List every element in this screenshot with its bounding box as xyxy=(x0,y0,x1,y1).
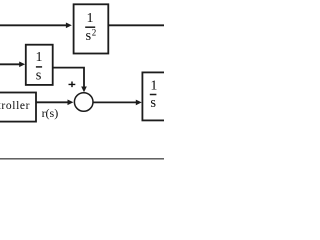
plus sign for top input xyxy=(69,82,76,88)
svg-text:2: 2 xyxy=(92,27,97,37)
svg-text:troller: troller xyxy=(0,100,30,112)
wire W5: controller output into summing junction xyxy=(36,101,68,103)
svg-text:1: 1 xyxy=(36,50,43,65)
arrowhead into summing junction left xyxy=(68,100,74,106)
arrowhead into 1/s^2 xyxy=(66,23,72,29)
fraction bar xyxy=(85,26,95,28)
fraction bar xyxy=(150,94,157,96)
svg-text:1: 1 xyxy=(87,11,94,26)
arrowhead into right 1/s block xyxy=(136,100,142,106)
arrowhead down into summing junction xyxy=(81,87,87,93)
svg-text:s: s xyxy=(150,95,156,111)
block U2: 1/s (left) xyxy=(26,45,53,85)
summing junction xyxy=(74,93,93,112)
wire W4: 1/s output right then down into summing junction xyxy=(53,67,84,88)
svg-text:1: 1 xyxy=(150,79,157,94)
svg-text:r(s): r(s) xyxy=(42,106,59,120)
bottom horizontal rule xyxy=(0,158,164,160)
block U3: Controller (cut off at left edge) xyxy=(0,93,36,122)
arrowhead into 1/s xyxy=(19,62,25,68)
wire W1: input line into 1/s^2 block xyxy=(0,24,66,26)
wire W3: input line into left 1/s block xyxy=(0,63,20,65)
block U4: 1/s (right, cut off at right edge) xyxy=(142,72,173,120)
block U1: 1/s^2 xyxy=(74,4,109,53)
fraction bar xyxy=(36,66,42,68)
svg-text:s: s xyxy=(85,28,91,44)
svg-text:s: s xyxy=(36,68,42,84)
wire W2: output of 1/s^2 to right edge xyxy=(108,24,164,26)
wire W6: summing junction output into right 1/s block xyxy=(93,101,136,103)
